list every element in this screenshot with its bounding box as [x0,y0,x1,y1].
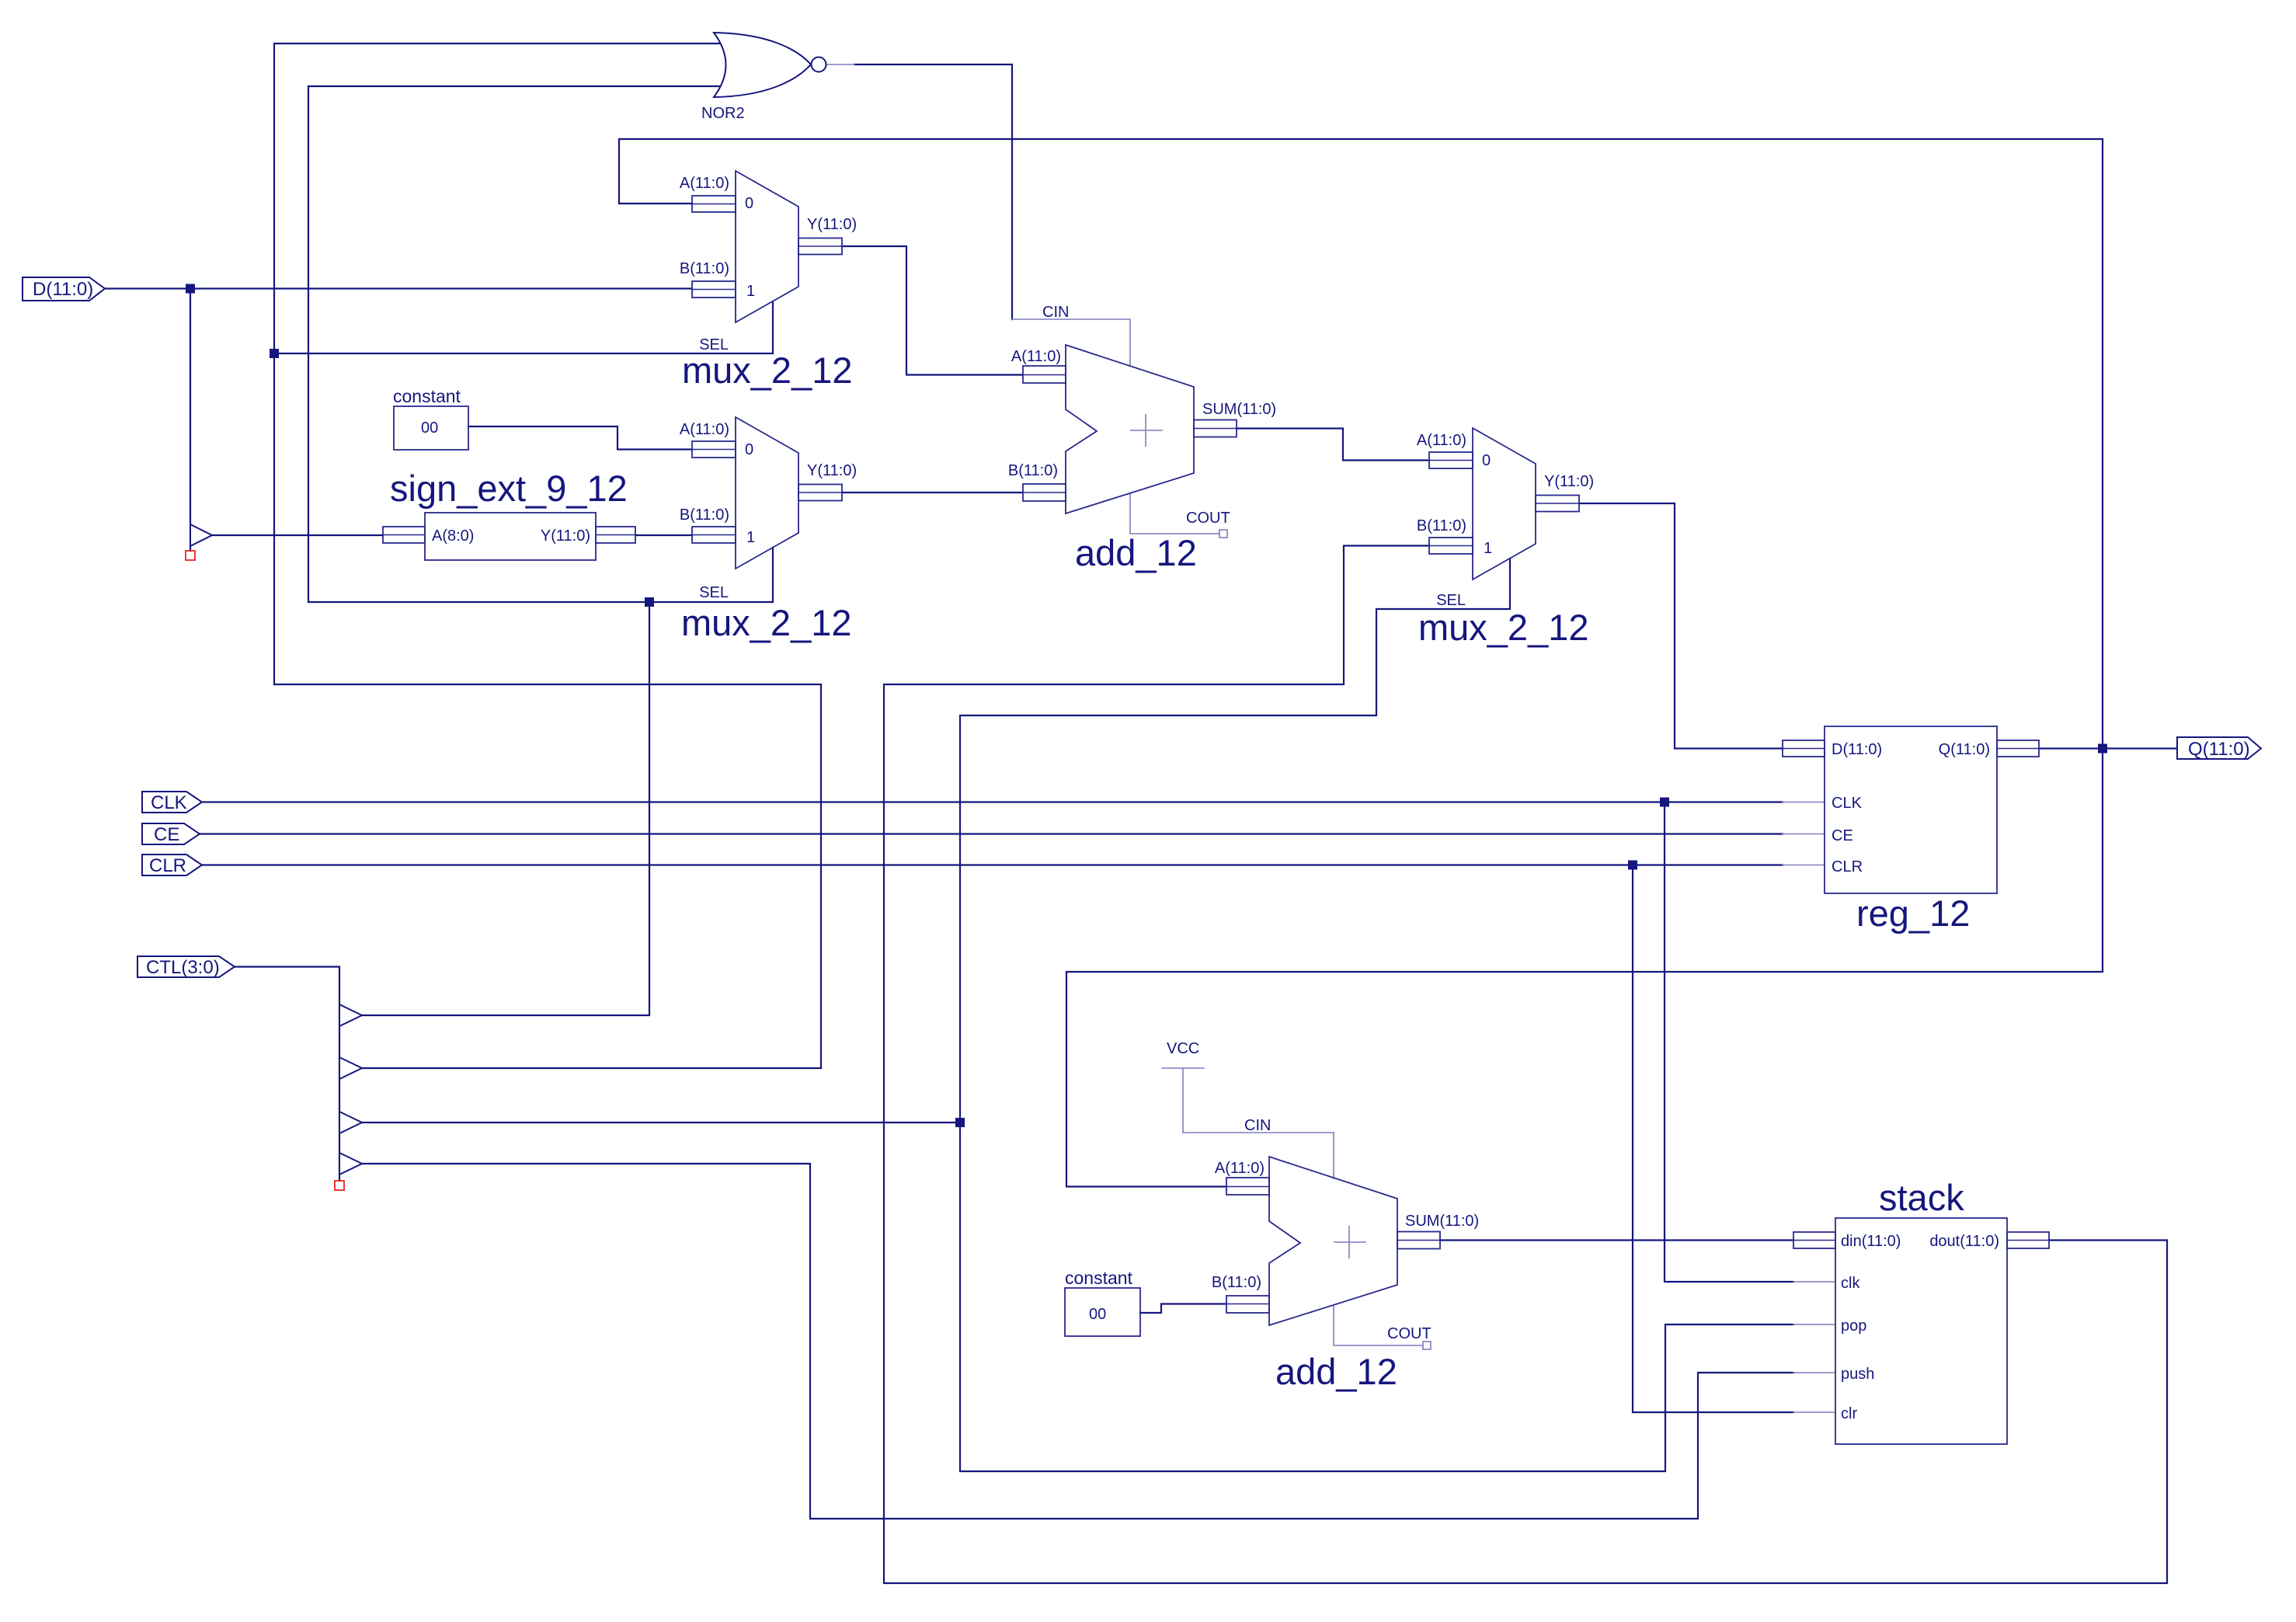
tap buffer CTL bit2 [339,1057,362,1079]
label mux3 Y pin [1544,473,1594,490]
label mux1 SEL [699,336,729,353]
mux_2_12 U2 lower-left mux body [736,417,798,569]
svg-text:Y(11:0): Y(11:0) [1544,473,1594,490]
unconnected marker red square below D tap [186,551,195,560]
add U5 plus sign [1334,1226,1366,1258]
wire net stack dout to mux3 B [884,546,2167,1584]
mux U1 A bus pin [692,196,736,212]
label constant bottom value 00 [1089,1306,1106,1323]
label sign_ext A pin [432,527,474,545]
svg-text:CLK: CLK [151,792,187,813]
input port CTL(3:0) [137,956,235,977]
svg-text:A(11:0): A(11:0) [1417,432,1466,449]
label mux3 sel 1 [1484,540,1492,557]
svg-text:Y(11:0): Y(11:0) [807,216,857,233]
svg-text:B(11:0): B(11:0) [1417,517,1466,534]
label mux2 instance name [681,602,852,643]
svg-text:Y(11:0): Y(11:0) [807,462,857,479]
sign_ext A bus pin [383,527,425,543]
svg-text:00: 00 [421,419,438,437]
NOR2 output pin stub [826,64,854,65]
wire net Q feedback: mux1 A, Q vertical, to add2 A [619,139,2103,1187]
sign_ext_9_12 U6 body [425,513,596,560]
label mux3 B pin [1417,517,1466,534]
svg-text:0: 0 [1482,452,1491,469]
junction CLR [1628,861,1637,870]
label port Q(11:0) [2188,739,2250,760]
add U4 SUM bus pin [1194,420,1237,437]
label constant bottom [1065,1268,1133,1288]
junction mux1 SEL [270,349,279,358]
label constant top [393,386,461,406]
wire mux2 Y to add1 B [842,492,1023,493]
wire net stack push from CTL buffer4 [362,1164,1793,1519]
svg-text:mux_2_12: mux_2_12 [1418,607,1589,648]
label sign_ext Y pin [541,527,590,545]
label mux1 sel 1 [746,283,755,300]
label stack din pin [1841,1233,1901,1250]
stack dout bus pin [2007,1232,2049,1248]
label reg CE pin [1832,827,1853,844]
label mux1 Y pin [807,216,857,233]
svg-text:A(11:0): A(11:0) [1011,348,1061,365]
add U5 SUM bus pin [1397,1232,1440,1249]
svg-text:B(11:0): B(11:0) [680,260,729,277]
label mux1 A pin [680,175,729,192]
wire D bus from D port to mux B [105,287,692,289]
svg-text:CLR: CLR [1832,858,1863,875]
wire CLR net [202,865,1793,1413]
label add2 instance name [1275,1351,1397,1392]
mux U2 Y bus pin [798,485,842,501]
label reg_12 instance name [1856,893,1970,934]
svg-text:00: 00 [1089,1306,1106,1323]
label add1 CIN [1042,304,1069,321]
svg-text:constant: constant [1065,1268,1133,1288]
constant block top [394,406,468,450]
label add2 A pin [1215,1160,1265,1177]
add U5 B bus pin [1226,1296,1269,1313]
label mux1 B pin [680,260,729,277]
label mux3 SEL [1436,592,1466,609]
reg D bus pin [1783,740,1825,757]
wire add1 SUM to mux3 A [1237,429,1429,461]
label port CLR [149,855,186,876]
svg-text:dout(11:0): dout(11:0) [1929,1233,1999,1250]
svg-text:stack: stack [1879,1177,1964,1218]
svg-text:add_12: add_12 [1275,1351,1397,1392]
wire mux1 Y to add1 A [842,246,1023,375]
wire reg Q to Q port [2039,747,2177,749]
mux_2_12 U3 right mux body [1473,428,1536,580]
add U4 plus sign [1130,414,1163,447]
wire VCC to add2 CIN (pin segment) [1183,1133,1334,1178]
svg-text:clk: clk [1841,1275,1860,1292]
label port D(11:0) [33,279,93,300]
label port CLK [151,792,187,813]
output port Q(11:0) [2177,737,2261,759]
svg-text:B(11:0): B(11:0) [680,506,729,524]
input port D(11:0) [23,277,105,301]
svg-text:sign_ext_9_12: sign_ext_9_12 [390,468,628,509]
wire CTL bus [235,967,339,1182]
label add1 instance name [1075,532,1197,573]
label mux3 instance name [1418,607,1589,648]
mux U3 A bus pin [1429,452,1473,468]
svg-text:SEL: SEL [1436,592,1466,609]
tap buffer CTL bit1 [339,1112,362,1133]
label mux1 instance name [682,350,853,391]
svg-text:pop: pop [1841,1317,1866,1335]
label VCC [1167,1040,1199,1057]
wire NOR2 output to add1 CIN corner [854,64,1012,319]
label stack instance name [1879,1177,1964,1218]
junction CLK [1660,798,1669,807]
svg-text:COUT: COUT [1387,1325,1432,1342]
svg-text:CE: CE [154,824,179,845]
wire tap buffer output to sign_ext A [213,534,383,536]
label mux2 A pin [680,421,729,438]
tap buffer CTL bit0 [339,1153,362,1175]
stack clk pop push clr pin stubs [1793,1282,1835,1412]
reg_12 U7 body [1825,726,1997,893]
sign_ext Y bus pin [596,527,635,543]
input port CLK [142,792,202,813]
label constant top value 00 [421,419,438,437]
label mux3 sel 0 [1482,452,1491,469]
label stack clr pin [1841,1405,1857,1422]
input port CE [142,823,200,844]
NOR2 output bubble [812,57,826,72]
junction D bus [186,284,195,294]
label mux2 sel 0 [745,441,753,458]
junction mux2 SEL [645,597,654,607]
mux U2 B bus pin [692,527,736,543]
mux U3 B bus pin [1429,538,1473,554]
mux U1 Y bus pin [798,238,842,255]
label add2 B pin [1212,1274,1261,1291]
wire CLK net [202,802,1793,1283]
wire add2 SUM to stack din [1440,1239,1793,1241]
label mux2 SEL [699,584,729,601]
label mux2 B pin [680,506,729,524]
label stack pop pin [1841,1317,1866,1335]
svg-text:0: 0 [745,195,753,212]
label reg CLK pin [1832,795,1863,812]
add U4 B bus pin [1023,484,1066,501]
svg-text:B(11:0): B(11:0) [1008,462,1058,479]
add1 COUT pin stub and open square [1130,493,1227,538]
svg-text:SEL: SEL [699,584,729,601]
label mux2 Y pin [807,462,857,479]
label stack dout pin [1929,1233,1999,1250]
wire add1 CIN pin segment [1012,319,1130,366]
wire CE net [200,833,1783,834]
add U5 A bus pin [1226,1178,1269,1195]
mux U3 Y bus pin [1536,496,1579,512]
svg-text:add_12: add_12 [1075,532,1197,573]
label add2 SUM pin [1405,1213,1479,1230]
svg-text:push: push [1841,1366,1874,1383]
label add2 COUT [1387,1325,1432,1342]
wire sign_ext Y to mux2 B [635,534,692,536]
svg-text:Y(11:0): Y(11:0) [541,527,590,545]
svg-text:1: 1 [746,283,755,300]
label sign_ext instance name [390,468,628,509]
input port CLR [142,855,202,875]
svg-text:CLR: CLR [149,855,186,876]
label mux2 sel 1 [746,529,755,546]
wire net mux3 SEL / stack pop from CTL buffer3 [362,559,1793,1471]
stack din bus pin [1793,1232,1835,1248]
svg-text:B(11:0): B(11:0) [1212,1274,1261,1291]
stack U8 body [1835,1218,2007,1444]
svg-text:constant: constant [393,386,461,406]
mux_2_12 U1 top mux body [736,171,798,322]
label stack push pin [1841,1366,1874,1383]
svg-text:mux_2_12: mux_2_12 [681,602,852,643]
add_12 U5 bottom adder body [1269,1157,1397,1325]
junction buffer3 / mux3 SEL [955,1118,965,1127]
svg-text:CLK: CLK [1832,795,1863,812]
mux U1 B bus pin [692,281,736,298]
label add2 CIN [1244,1117,1271,1134]
svg-text:CIN: CIN [1042,304,1069,321]
svg-text:Q(11:0): Q(11:0) [2188,739,2250,760]
svg-text:D(11:0): D(11:0) [1832,741,1882,758]
reg_12 CLK CE CLR pin stubs [1783,802,1825,865]
svg-text:mux_2_12: mux_2_12 [682,350,853,391]
NOR2 gate body [714,33,811,97]
svg-text:COUT: COUT [1186,510,1230,527]
tap buffer CTL bit3 [339,1004,362,1026]
svg-text:CIN: CIN [1244,1117,1271,1134]
svg-text:D(11:0): D(11:0) [33,279,93,300]
tap buffer D to sign_ext [190,524,212,546]
label mux1 sel 0 [745,195,753,212]
label port CTL(3:0) [146,957,220,978]
label reg Q pin [1939,741,1990,758]
label port CE [154,824,179,845]
label add1 A pin [1011,348,1061,365]
wire net NOR2 input B / mux2 SEL from CTL buffer1 [308,86,773,1015]
svg-text:din(11:0): din(11:0) [1841,1233,1901,1250]
svg-text:CTL(3:0): CTL(3:0) [146,957,220,978]
svg-text:A(11:0): A(11:0) [680,175,729,192]
svg-text:SUM(11:0): SUM(11:0) [1405,1213,1479,1230]
label stack clk pin [1841,1275,1860,1292]
label reg D pin [1832,741,1882,758]
add U4 A bus pin [1023,366,1066,383]
svg-text:NOR2: NOR2 [701,105,745,122]
svg-text:1: 1 [1484,540,1492,557]
svg-text:A(11:0): A(11:0) [1215,1160,1265,1177]
label mux3 A pin [1417,432,1466,449]
unconnected marker red square below CTL taps [335,1181,344,1190]
add_12 U4 top adder body [1066,345,1194,513]
label NOR2 [701,105,745,122]
wire constant 00 to mux2 A [468,426,692,450]
wire mux3 Y to reg D [1580,503,1783,749]
label add1 SUM pin [1202,401,1276,418]
VCC symbol [1162,1068,1204,1133]
svg-text:A(11:0): A(11:0) [680,421,729,438]
svg-text:reg_12: reg_12 [1856,893,1970,934]
svg-text:Q(11:0): Q(11:0) [1939,741,1990,758]
wire net NOR2 input A / mux1 SEL from CTL buffer2 [274,44,821,1068]
label add1 COUT [1186,510,1230,527]
reg Q bus pin [1997,740,2039,757]
svg-text:CE: CE [1832,827,1853,844]
mux U2 A bus pin [692,441,736,458]
wire D bus tap vertical [190,289,191,552]
svg-text:A(8:0): A(8:0) [432,527,474,545]
svg-text:clr: clr [1841,1405,1857,1422]
label reg CLR pin [1832,858,1863,875]
svg-text:1: 1 [746,529,755,546]
svg-text:SEL: SEL [699,336,729,353]
junction reg Q [2098,744,2107,754]
svg-text:SUM(11:0): SUM(11:0) [1202,401,1276,418]
svg-text:0: 0 [745,441,753,458]
svg-text:VCC: VCC [1167,1040,1199,1057]
label add1 B pin [1008,462,1058,479]
constant block bottom [1065,1288,1140,1336]
add2 COUT pin stub and open square [1334,1305,1431,1349]
wire constant2 00 to add2 B [1140,1304,1226,1314]
